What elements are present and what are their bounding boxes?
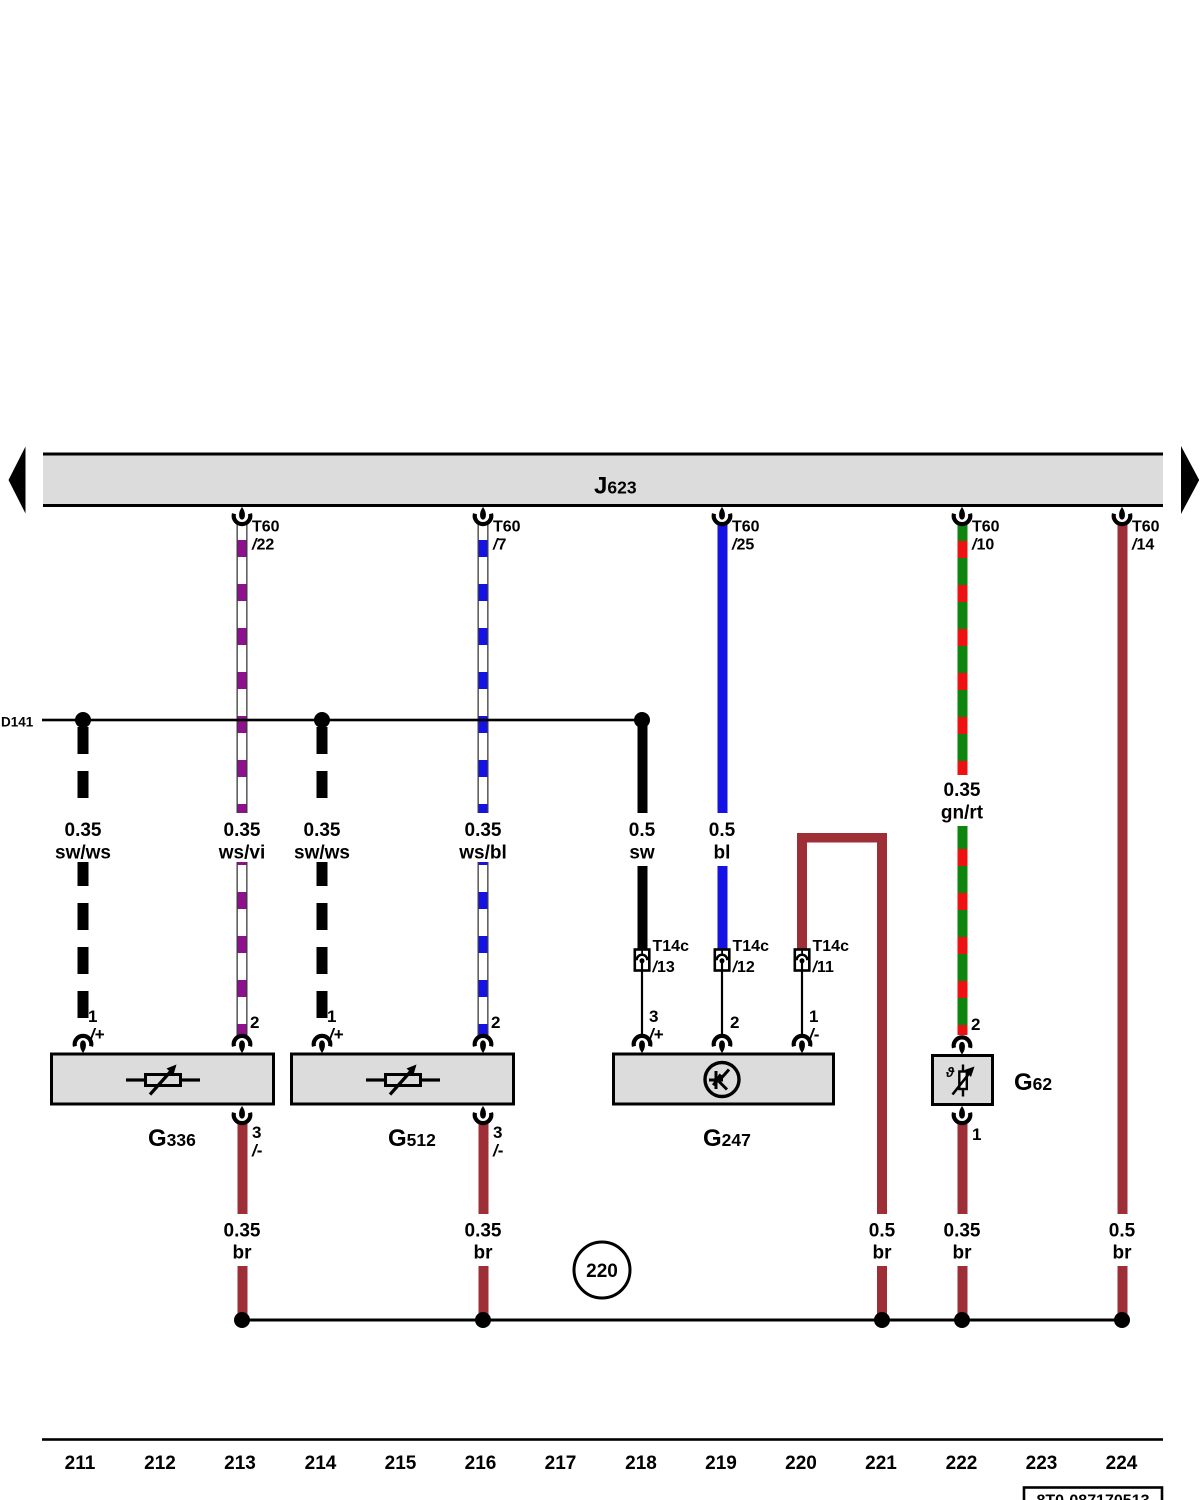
label 0.35 sw/ws (211) [53,813,113,864]
pin 2 G247 [714,1013,740,1053]
svg-text:/25: /25 [731,537,754,554]
svg-text:0.35: 0.35 [304,820,341,841]
junction dot [314,712,330,728]
label 0.5 sw (218) [612,813,672,866]
wire 0.35 br from G512 [479,1124,489,1314]
svg-text:2: 2 [971,1015,980,1034]
svg-text:0.5: 0.5 [1109,1221,1136,1242]
pin 2 G336 [234,1013,260,1053]
connector T14c/11 [795,938,849,976]
pin 1 G62 [954,1106,982,1144]
wire 0.35 ws/vi (track 213) [237,524,248,1035]
svg-text:219: 219 [705,1453,737,1474]
svg-text:217: 217 [545,1453,577,1474]
svg-text:D141: D141 [1,715,34,730]
G62 temperature sensor symbol [945,1064,975,1097]
sensor G247 box [614,1054,834,1104]
pin 1/+ G336 [75,1007,105,1053]
wire 0.35 sw/ws (track 214) [317,714,328,1035]
wire thin to G247 pin3 [641,971,643,1037]
label 0.35 ws/bl (216) [453,813,513,864]
node line D141 [1,715,642,730]
sensor G62 box [933,1056,993,1105]
svg-text:ϑ: ϑ [945,1064,955,1080]
svg-text:223: 223 [1026,1453,1058,1474]
junction dot [475,1312,491,1328]
label 0.35 sw/ws (214) [292,813,352,864]
svg-text:0.35: 0.35 [465,1221,502,1242]
terminal T60/22 [234,507,280,554]
svg-text:/22: /22 [251,537,274,554]
wire 0.5 bl (track 219) [718,524,728,949]
svg-text:0.5: 0.5 [629,820,656,841]
svg-text:0.5: 0.5 [709,820,736,841]
svg-text:T60: T60 [252,519,280,536]
wire thin to G247 pin2 [721,971,723,1037]
pin 2 G512 [475,1013,501,1053]
svg-text:J623: J623 [594,473,637,500]
svg-text:T14c: T14c [813,938,850,955]
svg-text:sw/ws: sw/ws [55,843,111,864]
left arrow [9,447,26,514]
svg-text:G336: G336 [148,1125,196,1152]
svg-text:220: 220 [785,1453,817,1474]
label 0.5 bl (219) [692,813,752,866]
wire 0.35 gn/rt (track 222) [958,524,968,1035]
pin 1/+ G512 [314,1007,344,1053]
svg-text:2: 2 [730,1013,739,1032]
label 0.35 br (222 bottom) [932,1214,992,1266]
svg-text:G247: G247 [703,1125,751,1152]
junction dot [1114,1312,1130,1328]
bus bar J623 [43,453,1163,508]
svg-text:sw/ws: sw/ws [294,843,350,864]
G512 variable resistor symbol [366,1065,440,1095]
svg-text:214: 214 [305,1453,337,1474]
svg-text:212: 212 [144,1453,176,1474]
svg-text:216: 216 [465,1453,497,1474]
svg-text:T60: T60 [732,519,760,536]
track numbers [65,1453,1138,1474]
junction dot [234,1312,250,1328]
svg-text:2: 2 [491,1013,500,1032]
svg-text:/12: /12 [732,959,755,976]
svg-text:/+: /+ [328,1025,344,1044]
wire 0.35 sw/ws (track 211) [78,714,89,1035]
svg-text:8T0-087170513: 8T0-087170513 [1037,1493,1150,1500]
G336 variable resistor symbol [126,1065,200,1095]
wire 0.35 br from G336 [238,1124,248,1314]
wire 0.5 sw (track 218) [638,714,648,949]
svg-text:T14c: T14c [733,938,770,955]
svg-text:/14: /14 [1131,537,1154,554]
label 0.35 br (213 bottom) [212,1214,272,1266]
svg-text:3: 3 [252,1123,261,1142]
svg-text:T60: T60 [493,519,521,536]
svg-text:/-: /- [808,1025,819,1044]
pin 3/+ G247 [634,1007,664,1053]
terminal T60/25 [714,507,760,554]
sensor G512 box [292,1054,514,1104]
ground line 220 [242,1319,1122,1322]
terminal T60/10 [954,507,1000,554]
svg-text:213: 213 [224,1453,256,1474]
svg-text:0.5: 0.5 [869,1221,896,1242]
junction dot [634,712,650,728]
wire 0.35 br from G62 [958,1124,968,1314]
svg-text:1: 1 [88,1007,97,1026]
junction dot [954,1312,970,1328]
svg-text:G62: G62 [1014,1069,1052,1096]
svg-text:211: 211 [65,1453,96,1474]
svg-text:1: 1 [327,1007,336,1026]
svg-text:224: 224 [1106,1453,1138,1474]
svg-text:/13: /13 [652,959,675,976]
svg-text:0.35: 0.35 [224,820,261,841]
label 0.5 br (221 bottom) [852,1214,912,1266]
svg-text:/-: /- [492,1141,503,1160]
terminal T60/14 [1114,507,1160,554]
svg-text:ws/bl: ws/bl [458,843,507,864]
svg-text:br: br [233,1243,253,1264]
svg-text:T60: T60 [1132,519,1160,536]
svg-text:/-: /- [251,1141,262,1160]
junction dot [874,1312,890,1328]
svg-text:2: 2 [250,1013,259,1032]
connector T14c/12 [715,938,769,976]
right arrow [1181,446,1199,514]
pin 3/- G512 [475,1106,504,1160]
svg-text:222: 222 [946,1453,978,1474]
label 0.35 ws/vi (213) [212,813,272,864]
svg-text:/+: /+ [89,1025,105,1044]
svg-text:G512: G512 [388,1125,436,1152]
pin 3/- G336 [234,1106,263,1160]
svg-text:br: br [873,1243,893,1264]
svg-text:/7: /7 [492,537,506,554]
junction dot [75,712,91,728]
svg-text:0.35: 0.35 [944,1221,981,1242]
svg-text:0.35: 0.35 [65,820,102,841]
wire 0.5 br (track 224) [1118,524,1128,1314]
G247 sender symbol [705,1063,739,1097]
svg-text:T14c: T14c [653,938,690,955]
svg-text:221: 221 [865,1453,897,1474]
svg-text:1: 1 [972,1125,981,1144]
svg-text:br: br [474,1243,494,1264]
svg-text:215: 215 [385,1453,417,1474]
svg-text:/10: /10 [971,537,994,554]
wire 0.35 ws/bl (track 216) [478,524,489,1035]
svg-text:220: 220 [586,1261,618,1282]
svg-text:/+: /+ [648,1025,664,1044]
sensor G336 box [52,1054,274,1104]
svg-text:sw: sw [629,843,655,864]
wire 0.5 br jumper (tracks 220-221) [797,833,887,1314]
svg-text:br: br [1113,1243,1133,1264]
connector T14c/13 [635,938,689,976]
svg-text:3: 3 [649,1007,658,1026]
wire thin to G247 pin1 [801,971,803,1037]
node 220 circle [574,1242,630,1298]
svg-text:3: 3 [493,1123,502,1142]
svg-text:1: 1 [809,1007,818,1026]
svg-text:T60: T60 [972,519,1000,536]
svg-text:/11: /11 [812,959,834,976]
svg-text:bl: bl [714,843,731,864]
document number box [1024,1488,1162,1500]
svg-text:0.35: 0.35 [944,780,981,801]
label 0.35 gn/rt (222) [932,775,992,826]
terminal T60/7 [475,507,521,554]
svg-text:0.35: 0.35 [224,1221,261,1242]
svg-text:gn/rt: gn/rt [941,803,984,824]
label 0.5 br (224 bottom) [1092,1214,1152,1266]
pin 1/- G247 [794,1007,820,1053]
bottom rule [42,1438,1163,1441]
svg-text:218: 218 [625,1453,657,1474]
svg-text:0.35: 0.35 [465,820,502,841]
pin 2 G62 [954,1015,981,1055]
label 0.35 br (216 bottom) [453,1214,513,1266]
svg-text:br: br [953,1243,973,1264]
svg-text:ws/vi: ws/vi [218,843,265,864]
